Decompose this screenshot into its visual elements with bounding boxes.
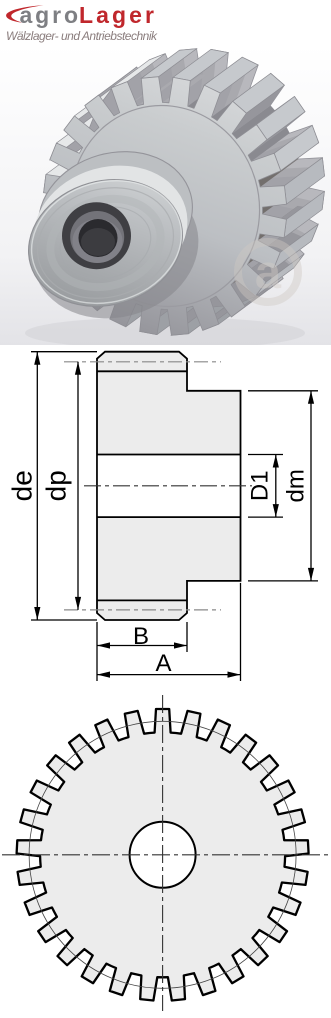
svg-text:dm: dm xyxy=(282,469,309,502)
vertical centerline xyxy=(162,695,164,1011)
gear front-view body xyxy=(17,709,309,1001)
dimension de line xyxy=(34,352,40,620)
label de xyxy=(6,470,37,501)
logo tagline xyxy=(6,29,158,43)
dimension B line xyxy=(97,642,187,648)
gear front toothed face xyxy=(44,77,287,336)
hub front face xyxy=(13,162,197,324)
logo text Lager xyxy=(79,2,154,28)
pitch dash line top xyxy=(64,361,221,363)
gear rim sweep fill xyxy=(56,58,312,326)
watermark xyxy=(238,242,298,302)
svg-text:B: B xyxy=(133,623,149,650)
dimension dm line xyxy=(308,391,314,581)
dimension B extension lines xyxy=(97,622,187,681)
dimension dp line xyxy=(75,362,81,610)
dimension de extension lines xyxy=(31,352,97,620)
floor shadow xyxy=(25,317,305,349)
dimension A line xyxy=(97,672,241,678)
label D1 xyxy=(246,470,273,501)
svg-text:D1: D1 xyxy=(246,470,273,501)
gear tooth flanks xyxy=(110,85,325,335)
horizontal centerline xyxy=(84,485,252,487)
label A xyxy=(155,650,171,677)
svg-text:A: A xyxy=(155,650,171,677)
bore outer ring xyxy=(62,202,131,269)
dimension dm extension lines xyxy=(248,391,318,581)
dimension D1 line xyxy=(273,455,279,518)
tooth root line bottom xyxy=(97,599,187,601)
label dp xyxy=(40,470,71,501)
gear tooth gap floors xyxy=(68,75,301,310)
horizontal centerline xyxy=(2,854,330,856)
gear section body xyxy=(97,352,241,620)
logo text agro xyxy=(20,2,79,28)
svg-text:Wälzlager- und Antriebstechnik: Wälzlager- und Antriebstechnik xyxy=(6,29,158,43)
hub drop shadow on gear face xyxy=(16,160,215,337)
logo swoosh xyxy=(6,5,43,22)
label dm xyxy=(282,469,309,502)
bore hole xyxy=(79,219,118,257)
svg-text:dp: dp xyxy=(40,470,71,501)
bore bevel xyxy=(70,211,124,263)
center hole xyxy=(130,822,196,888)
svg-text:Lager: Lager xyxy=(79,2,154,28)
bore strip xyxy=(97,455,241,518)
gear tooth top surfaces xyxy=(44,49,325,336)
gear back rim xyxy=(82,49,325,308)
dimension D1 extension lines xyxy=(248,455,283,518)
label B xyxy=(133,623,149,650)
gear face inner ring xyxy=(47,83,283,329)
tooth root line top xyxy=(97,370,187,372)
svg-text:a: a xyxy=(255,245,282,298)
hub cylinder wall xyxy=(18,134,207,310)
pitch circle (thin) xyxy=(29,721,296,988)
svg-text:de: de xyxy=(6,470,37,501)
svg-text:agro: agro xyxy=(20,2,79,28)
photo background xyxy=(0,45,331,345)
pitch dash line bottom xyxy=(64,609,221,611)
dimension A extension line right xyxy=(240,583,242,681)
